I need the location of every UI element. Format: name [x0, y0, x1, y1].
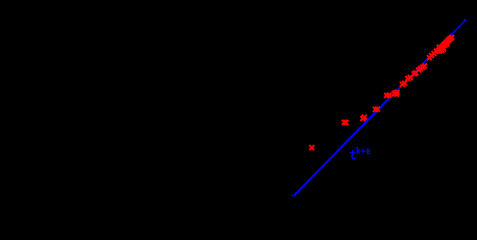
data point 32 (red x marker): [440, 44, 445, 49]
data point 24 (red x marker): [427, 55, 432, 60]
data point 9 (red x marker): [387, 93, 392, 98]
data point 17 (red x marker): [408, 75, 413, 80]
data point 18 (red x marker): [412, 71, 417, 76]
data point 5 (red x marker): [362, 115, 367, 120]
data point 21 (red x marker): [418, 66, 423, 71]
data point 30 (red x marker): [437, 47, 442, 52]
data point 31 (red x marker): [439, 45, 444, 50]
data point 19 (red x marker): [413, 70, 418, 75]
data point 27 (red x marker): [434, 49, 439, 54]
data point 33 (red x marker): [442, 42, 447, 47]
data point 43 (red x marker): [441, 46, 446, 51]
data point 44 (red x marker): [447, 37, 452, 42]
power-law label t^(k+beta): [350, 147, 370, 158]
data point 25 (red x marker): [429, 53, 434, 58]
data point 39 (red x marker): [441, 45, 446, 50]
data point 6 (red x marker): [373, 107, 378, 112]
data point 10 (red x marker): [392, 91, 397, 96]
data point 45 (red x marker): [449, 36, 454, 41]
data point 12 (red x marker): [395, 90, 400, 95]
start dot: [291, 194, 293, 196]
data point 41 (red x marker): [444, 41, 449, 46]
data point 22 (red x marker): [420, 65, 425, 70]
data point 38 (red x marker): [439, 47, 444, 52]
data point 15 (red x marker): [402, 81, 407, 86]
data point 35 (red x marker): [445, 39, 450, 44]
end dot: [464, 19, 467, 22]
data point 1 (red x marker): [309, 145, 314, 150]
data point 11 (red x marker): [394, 92, 399, 97]
data point 7 (red x marker): [375, 107, 380, 112]
data point 28 (red x marker): [436, 48, 441, 53]
data point 36 (red x marker): [446, 38, 451, 43]
data point 8 (red x marker): [384, 93, 389, 98]
data point 34 (red x marker): [443, 41, 448, 46]
fit line thin tip segment: [453, 21, 465, 34]
data point 42 (red x marker): [439, 48, 444, 53]
data point 4 (red x marker): [360, 116, 365, 121]
data point 29 (red x marker): [437, 45, 442, 50]
data point 16 (red x marker): [405, 76, 410, 81]
data point 14 (red x marker): [400, 82, 405, 87]
data point 37 (red x marker): [437, 49, 442, 54]
data point 20 (red x marker): [416, 67, 421, 72]
data point 46 (red x marker): [449, 35, 454, 40]
data point 13 (red x marker): [393, 91, 398, 96]
blue fit line: [294, 34, 453, 196]
data point 26 (red x marker): [431, 51, 436, 56]
data point 40 (red x marker): [442, 43, 447, 48]
data point 3 (red x marker): [343, 120, 348, 125]
data point 23 (red x marker): [422, 63, 427, 68]
data point 2 (red x marker): [342, 120, 347, 125]
